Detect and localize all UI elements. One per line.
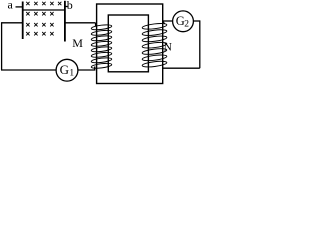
svg-text:b: b <box>67 0 73 12</box>
svg-text:N: N <box>164 41 173 53</box>
wire stub to coil M top <box>95 23 97 27</box>
wire from G1 to coil M bottom <box>78 67 95 71</box>
wire right edge down <box>199 20 201 68</box>
wire left edge down <box>1 22 3 70</box>
coil M (primary winding) <box>91 24 112 69</box>
rail (right conductor) <box>64 1 66 42</box>
coil N (secondary winding) <box>142 22 167 68</box>
wire bottom to G1 <box>1 69 57 71</box>
svg-text:a: a <box>8 0 14 12</box>
tick from right rail to b <box>65 6 68 8</box>
wire from right rail to coil M top <box>65 22 96 24</box>
wire from coil N to G2 <box>163 20 173 22</box>
galvanometer G1 circle <box>56 59 78 81</box>
svg-text:G: G <box>60 62 69 77</box>
rod ab <box>23 9 65 11</box>
wire from G2 to right edge <box>193 20 200 22</box>
transformer core outer rectangle <box>97 4 163 84</box>
galvanometer G2 circle <box>173 11 194 32</box>
svg-text:1: 1 <box>69 68 74 78</box>
tick from a to left rail <box>16 6 23 8</box>
wire from left rail to left edge <box>2 22 23 24</box>
svg-text:2: 2 <box>184 19 189 29</box>
rail (left conductor) <box>22 2 24 40</box>
transformer core inner rectangle (window) <box>108 15 148 72</box>
wire stub from coil N top <box>163 21 165 24</box>
wire bottom of secondary loop <box>163 67 200 69</box>
magnetic field B (x marks) <box>26 2 61 36</box>
svg-text:M: M <box>72 36 83 50</box>
